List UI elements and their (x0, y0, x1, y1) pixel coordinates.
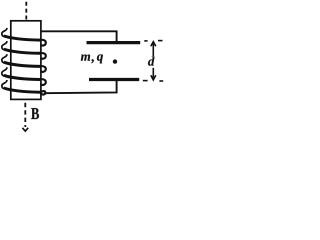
label comma (of "m , q") (91, 59, 93, 63)
winding 3 left hook (2, 54, 7, 63)
bottom axis arrowhead (22, 128, 28, 131)
winding 1 right loop (41, 40, 46, 46)
winding 3 right loop (41, 66, 46, 72)
winding 2 left hook (2, 41, 7, 50)
capacitor bottom plate (89, 78, 139, 81)
winding 5 end loop (41, 91, 46, 95)
dashed axis line (bottom, below coil) (24, 103, 26, 127)
wire from coil bottom to capacitor bottom plate (45, 80, 117, 93)
dimension d upper arrow segment (152, 42, 154, 57)
wire from coil top to capacitor top plate (41, 31, 116, 42)
winding 4 left hook (2, 67, 7, 76)
particle dot (113, 59, 117, 63)
winding 4 right loop (41, 79, 46, 85)
dashed extension of top plate (144, 40, 147, 42)
label m (of "m , q") (81, 54, 90, 60)
dashed axis line (top, above coil) (25, 2, 27, 21)
dashed extension of bottom plate (143, 80, 148, 82)
winding 1 front stroke (4, 36, 41, 40)
label d (plate separation) (148, 57, 155, 66)
label B (magnetic field) (31, 108, 39, 119)
label q (of "m , q") (97, 54, 103, 63)
coil core rectangle (11, 21, 41, 100)
winding 1 left hook (2, 28, 7, 37)
dimension d lower arrow segment (152, 68, 154, 80)
capacitor top plate (87, 41, 141, 44)
winding 2 right loop (41, 53, 46, 59)
dimension d lower arrowhead (151, 75, 156, 80)
winding 5 left hook (2, 80, 7, 89)
winding 5 front stroke (4, 88, 41, 92)
dimension d upper arrowhead (151, 42, 156, 47)
winding 4 front stroke (4, 75, 41, 79)
winding 3 front stroke (4, 62, 41, 66)
winding 2 front stroke (4, 49, 41, 53)
